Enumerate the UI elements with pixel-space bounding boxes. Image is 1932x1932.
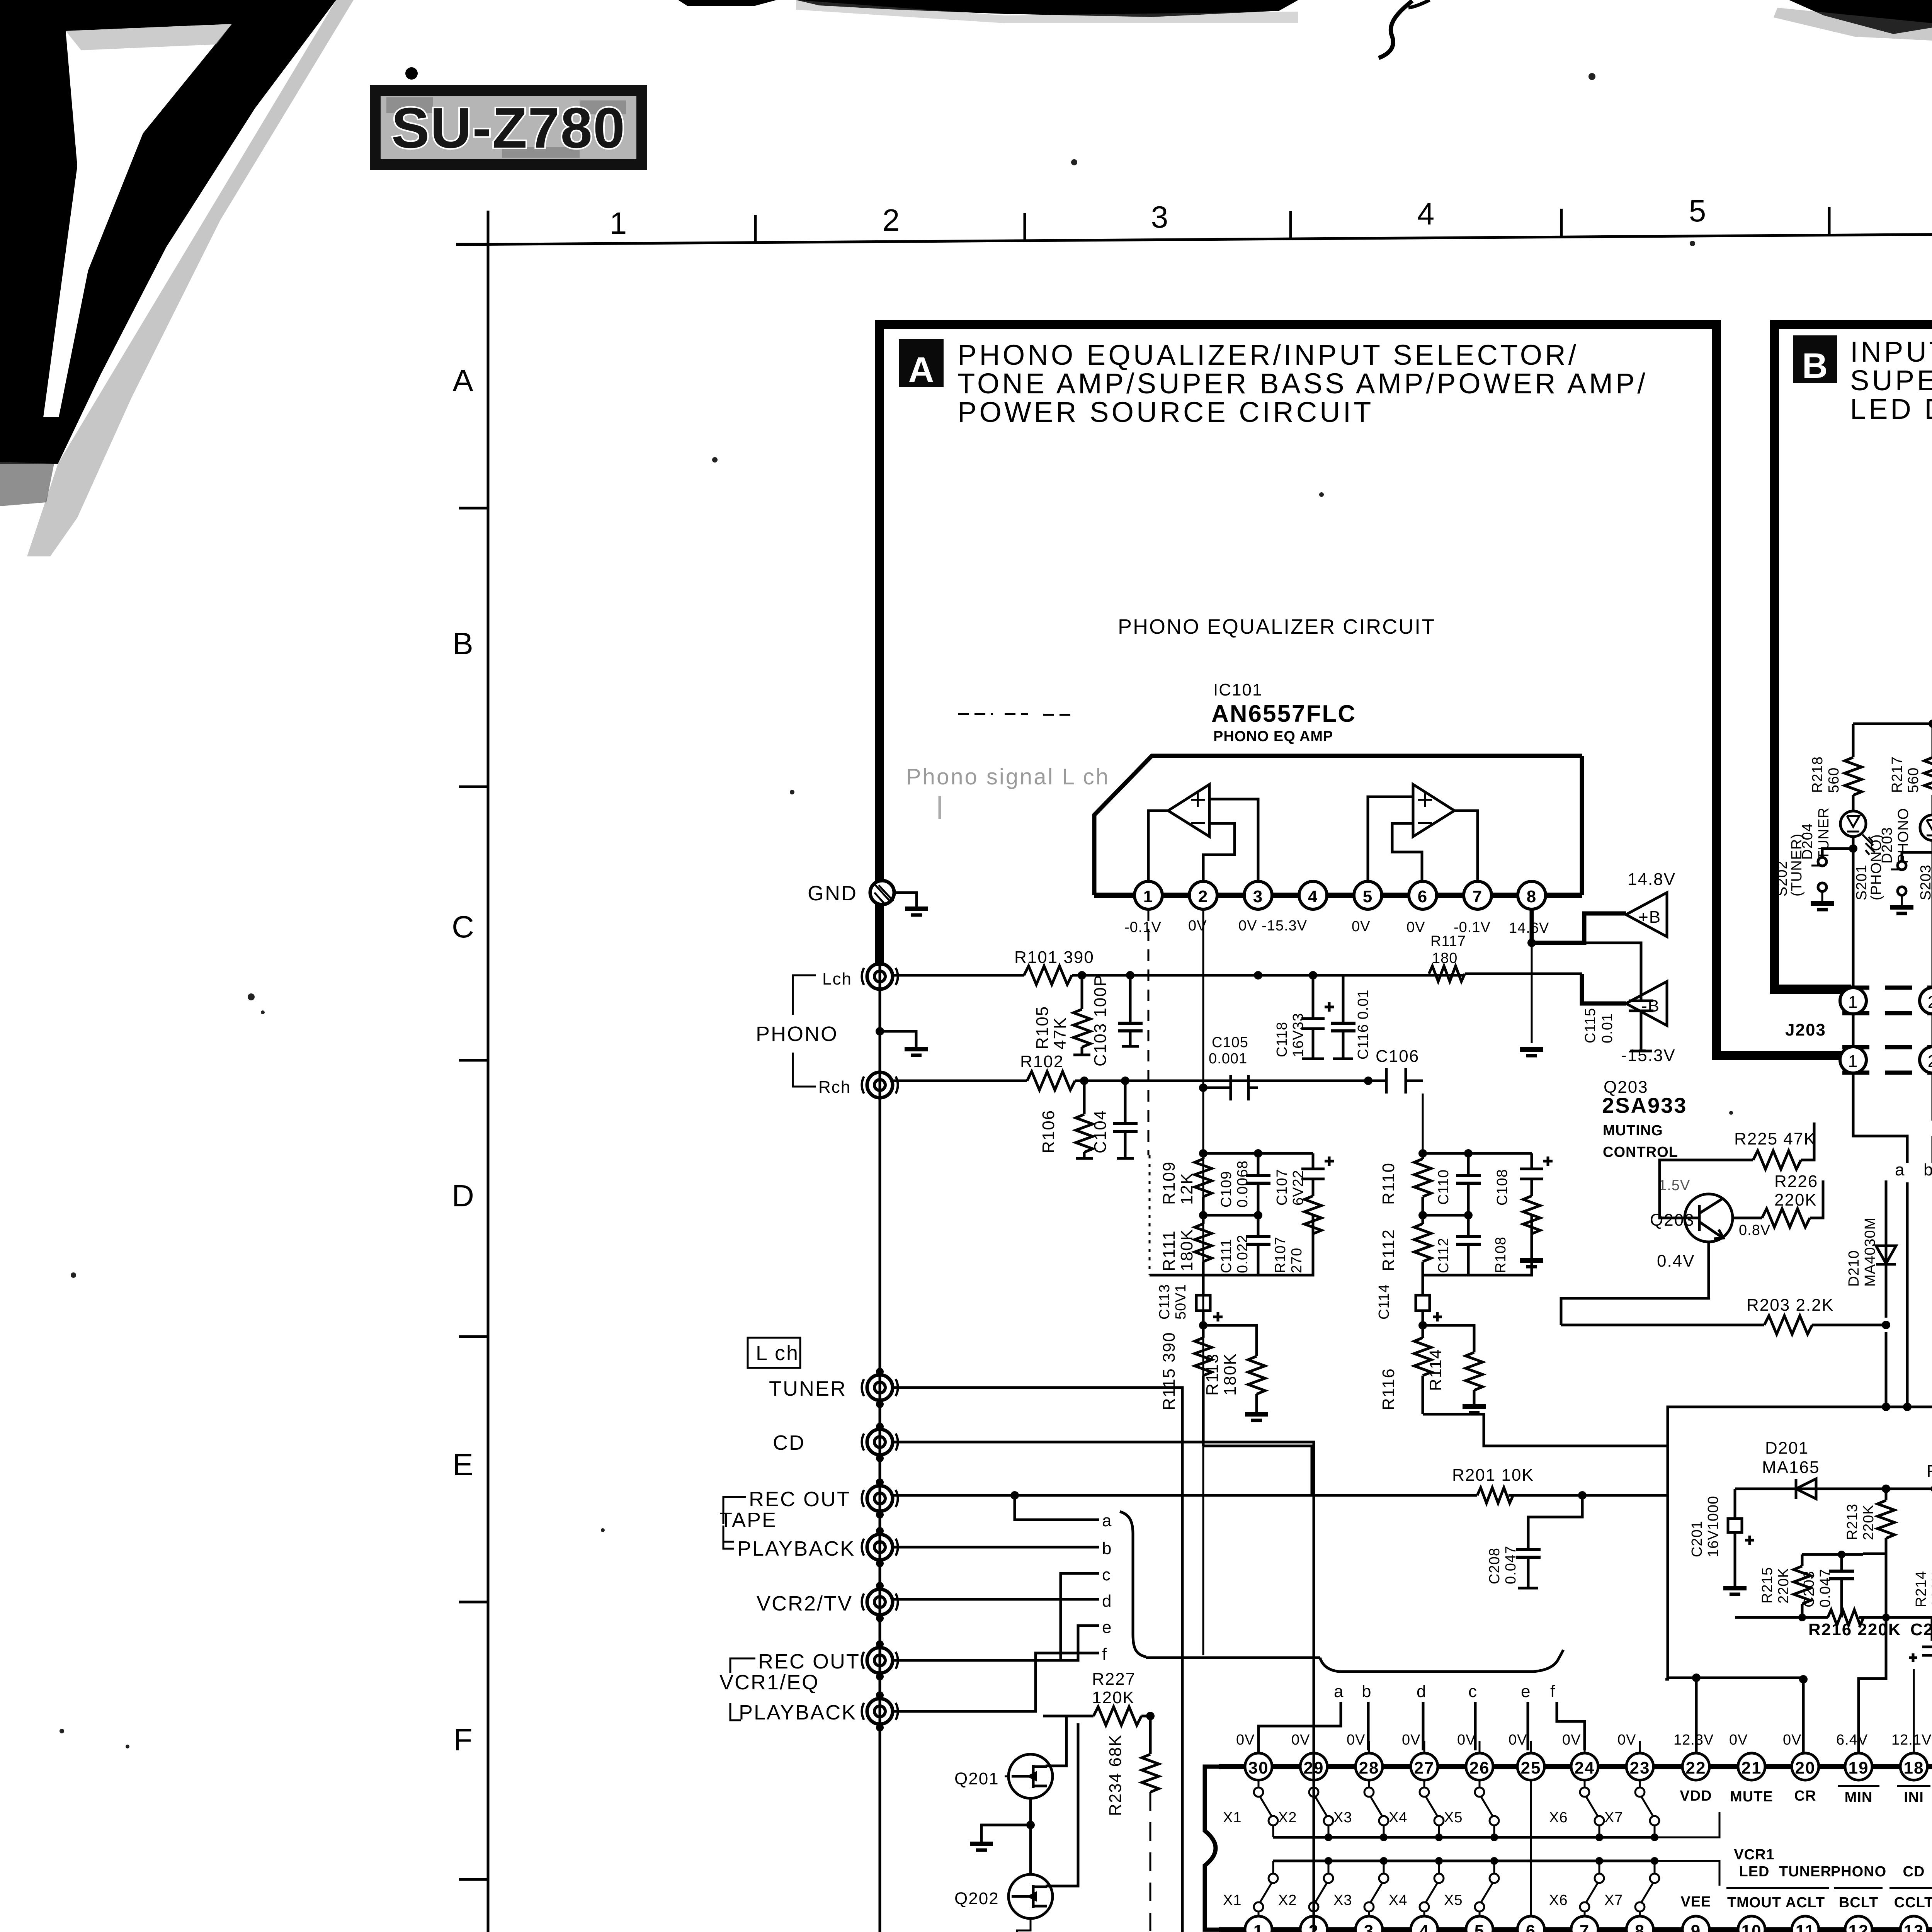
IC201 pin 2 [1300,1916,1327,1932]
resistor R110 [1414,1153,1431,1215]
Rch signal wire [893,1080,1423,1082]
svg-text:PHONO: PHONO [756,1022,838,1046]
svg-text:R117: R117 [1430,933,1466,949]
e tap wire [1061,1626,1099,1660]
IC201 left outline with notch [1205,1767,1219,1930]
capacitor C104 [1113,1081,1138,1158]
svg-text:1: 1 [610,206,627,240]
wire pin22 riser [1695,1678,1698,1753]
svg-text:0.4V: 0.4V [1657,1252,1695,1270]
svg-text:TAPE: TAPE [719,1509,777,1532]
f fan drop [1557,1702,1585,1750]
bus junction b4244 [1651,1857,1658,1865]
e fan drop [1527,1702,1529,1750]
left ruler tick C|D [459,1059,488,1062]
R226 wire [1733,1180,1823,1218]
resistor R201 [1477,1488,1513,1503]
svg-text:C112: C112 [1435,1238,1452,1273]
svg-text:(PHONO): (PHONO) [1868,834,1884,900]
junction D210 block [1882,1403,1890,1411]
junction C113 out [1199,1321,1207,1330]
svg-text:X5: X5 [1444,1810,1463,1826]
block B label square [1793,335,1837,383]
R216 bus junctions [1798,1614,1806,1621]
switch X1 top group [1254,1781,1278,1837]
svg-text:e: e [1102,1618,1112,1637]
svg-text:12: 12 [1849,1922,1869,1932]
network box dashes [1149,1155,1151,1275]
pin12 name PHONO BCLT [1831,1864,1886,1911]
svg-text:f: f [1550,1682,1556,1701]
capacitor C113 electrolytic [1196,1275,1223,1325]
bus junction 3543 [1380,1833,1388,1841]
svg-text:MA4030M: MA4030M [1862,1217,1878,1287]
svg-text:R211: R211 [1927,1462,1932,1481]
svg-text:R108: R108 [1493,1236,1509,1273]
svg-text:-15.3V: -15.3V [1621,1046,1676,1065]
IC201 pin 29 [1300,1753,1327,1780]
svg-text:X3: X3 [1333,1892,1352,1908]
GND stub and ground [894,893,917,907]
svg-text:4: 4 [1417,197,1435,231]
resistor R102 [1027,1071,1075,1090]
svg-text:a: a [1102,1511,1112,1530]
svg-text:R105: R105 [1033,1006,1052,1049]
junction R101 out a [1078,971,1086,980]
svg-text:f: f [1102,1645,1107,1664]
switch X7 bottom group [1635,1861,1659,1916]
top-right corner black [1789,0,1932,34]
svg-text:0V: 0V [1402,1732,1420,1748]
ruler tick 4|5 [1560,209,1563,236]
wire PLAYBACK L to b [893,1546,1099,1549]
pin1 line down [1148,909,1150,1155]
svg-text:21: 21 [1742,1759,1762,1777]
svg-text:IC101: IC101 [1213,680,1262,699]
svg-text:F: F [454,1723,473,1757]
svg-text:27: 27 [1414,1759,1435,1777]
svg-text:X4: X4 [1389,1892,1407,1908]
junction D201-R213 [1882,1485,1890,1493]
capacitor C118 electrolytic [1301,975,1334,1059]
FET Q201 [1009,1754,1053,1798]
svg-text:X7: X7 [1604,1810,1623,1826]
svg-text:0V: 0V [1783,1732,1801,1748]
svg-text:3: 3 [1253,887,1263,906]
IC201 pin 4 [1411,1916,1438,1932]
Q201 source wire [1046,1716,1066,1766]
svg-text:D201: D201 [1765,1439,1809,1458]
resistor R112 [1414,1215,1431,1275]
svg-text:6: 6 [1418,887,1428,906]
svg-text:R226: R226 [1774,1172,1818,1191]
svg-text:28: 28 [1359,1759,1379,1777]
svg-text:0V: 0V [1617,1732,1636,1748]
svg-text:47K: 47K [1051,1017,1070,1049]
svg-text:Rch: Rch [818,1078,851,1097]
IC201 pin 3 [1355,1916,1383,1932]
svg-text:R213: R213 [1844,1503,1861,1540]
svg-text:PHONO: PHONO [1895,808,1912,864]
block A label square [899,339,944,387]
pin11 name TUNER ACLT [1779,1864,1832,1911]
svg-text:C116 0.01: C116 0.01 [1355,989,1371,1060]
bus junction 3829 [1490,1833,1498,1841]
IC201 pin 30 [1245,1753,1272,1780]
svg-text:R114: R114 [1426,1349,1445,1391]
a b vertical drops [1907,1182,1932,1489]
pin19 name MIN [1838,1786,1879,1806]
capacitor C208 [1516,1495,1582,1588]
svg-text:0V -15.3V: 0V -15.3V [1238,918,1307,934]
svg-text:8: 8 [1635,1922,1645,1932]
X7 bottom jog [1655,1861,1719,1886]
jack VCR1 REC OUT L [862,1648,898,1673]
svg-text:CCLT: CCLT [1894,1895,1932,1911]
J203 row1 dashed band [1842,986,1932,990]
svg-text:X3: X3 [1333,1810,1352,1826]
svg-text:PLAYBACK: PLAYBACK [739,1701,857,1724]
bus junction b3829 [1490,1857,1498,1865]
IC101 pin 8 [1518,881,1546,909]
junction C114 out [1418,1321,1427,1330]
IC201 pin 21 [1738,1753,1765,1780]
X7 top jog [1655,1812,1719,1837]
transistor Q203 [1685,1194,1733,1242]
switch X1 bottom group [1254,1861,1278,1916]
capacitor C205 [1886,1617,1932,1662]
capacitor C103 [1118,975,1143,1046]
svg-text:1: 1 [1253,1922,1264,1932]
svg-text:1.5V: 1.5V [1658,1177,1690,1194]
svg-text:C107: C107 [1274,1169,1290,1206]
svg-text:3: 3 [1364,1922,1374,1932]
wire REC OUT L with R201 [893,1494,1668,1497]
svg-text:J203: J203 [1785,1020,1826,1039]
svg-text:X2: X2 [1278,1810,1297,1826]
svg-text:0V: 0V [1457,1732,1476,1748]
IC101 pin 5 [1354,881,1382,909]
svg-text:E: E [452,1447,473,1482]
block A frame right jog horizontal [1712,1051,1842,1060]
switch S202 [1811,849,1853,910]
IC201 pin 8 [1626,1916,1653,1932]
svg-text:R214: R214 [1913,1571,1929,1607]
phono input bus [879,905,881,1932]
svg-text:R102: R102 [1020,1052,1064,1071]
svg-text:ACLT: ACLT [1786,1895,1825,1911]
junction pin4 node [1309,971,1317,980]
Q202 drain wire [1046,1723,1078,1886]
resistor R203 [1764,1316,1812,1334]
svg-text:MUTE: MUTE [1730,1789,1773,1805]
svg-text:5: 5 [1363,887,1373,906]
svg-text:16V1000: 16V1000 [1705,1496,1721,1557]
svg-text:X2: X2 [1278,1892,1297,1908]
op-amp U1a output wire [1148,811,1168,881]
svg-text:Q202: Q202 [954,1889,999,1908]
svg-text:C115: C115 [1582,1008,1599,1043]
svg-text:A: A [452,363,473,398]
IC201 pin 25 [1517,1753,1544,1780]
svg-text:LED DR: LED DR [1850,393,1932,425]
R114 tap wire [1423,1325,1474,1352]
svg-text:Phono signal L ch: Phono signal L ch [906,764,1110,789]
R113 tap wire [1203,1325,1257,1356]
jack TAPE PLAYBACK L [862,1534,898,1560]
resistor R105 [1073,975,1090,1055]
svg-text:CONTROL: CONTROL [1603,1144,1678,1160]
svg-text:0V: 0V [1291,1732,1310,1748]
top switch common bus [1273,1836,1655,1839]
junction net L2 [1254,1149,1262,1158]
b fan drop [1367,1702,1370,1750]
jack PHONO Rch [862,1072,898,1098]
mid ground stub [880,1031,916,1048]
svg-text:R225 47K: R225 47K [1734,1129,1816,1148]
-B feed wire [1582,974,1626,1003]
a fan drop [1259,1702,1341,1753]
svg-text:270: 270 [1289,1248,1305,1273]
svg-text:R109: R109 [1160,1161,1179,1205]
IC201 pin 6 [1517,1916,1544,1932]
svg-text:5: 5 [1475,1922,1485,1932]
IC101 pin 7 [1464,881,1492,909]
junction R215 bus [1838,1551,1845,1558]
svg-text:0.01: 0.01 [1599,1013,1616,1043]
pin13 name CD CCLT [1889,1864,1932,1911]
pin18 name INI [1897,1786,1930,1806]
IC101 pin 4 [1299,881,1327,909]
junction pin3 node [1254,971,1262,980]
resistor R109 [1195,1153,1212,1215]
junction R201 out [1578,1491,1587,1500]
resistor R227 [1094,1707,1141,1725]
resistor R117 [1429,966,1465,981]
svg-text:TUNER: TUNER [1816,807,1832,860]
a-f bus to selector [1146,1656,1320,1659]
svg-text:B: B [452,626,473,661]
bus junction 3686 [1435,1833,1443,1841]
svg-text:20: 20 [1795,1759,1816,1777]
svg-text:23: 23 [1630,1759,1650,1777]
scan speck dot [405,67,418,80]
svg-text:R106: R106 [1039,1110,1058,1153]
IC201 pin 1 [1245,1916,1272,1932]
J203 row1 pin 1 [1840,988,1866,1014]
svg-text:R201 10K: R201 10K [1452,1466,1534,1485]
svg-text:120K: 120K [1092,1688,1135,1707]
op-amp U1a +input wire [1209,799,1258,882]
Lch signal wire [893,974,1464,977]
jack CD L [862,1429,898,1455]
svg-text:R111: R111 [1160,1230,1179,1271]
TAPE bracket L [723,1497,746,1549]
svg-text:R116: R116 [1379,1368,1398,1410]
IC201 pin 12 [1845,1916,1872,1932]
svg-text:VEE: VEE [1680,1894,1711,1910]
mid ground junction [876,1027,884,1036]
IC201 pin 11 [1792,1916,1819,1932]
svg-text:VCR2/TV: VCR2/TV [757,1592,853,1615]
bus junction 4244 [1651,1833,1658,1841]
junction R203-D210 [1882,1321,1890,1329]
resistor R108 [1520,1187,1543,1267]
LED D204 [1840,811,1875,855]
switch X4 bottom group [1420,1861,1444,1916]
R113 ground [1245,1414,1268,1420]
wire J203 row2 to a/b [1853,1073,1932,1163]
wire VCR2/TV L to d [893,1599,1099,1602]
svg-text:b: b [1923,1160,1932,1179]
svg-text:0.047: 0.047 [1503,1546,1519,1584]
switch X4 top group [1420,1781,1444,1837]
pin2 long line [1202,909,1204,1655]
resistor R213 [1863,1489,1895,1554]
switch X2 top group [1309,1781,1333,1837]
svg-text:10: 10 [1742,1922,1762,1932]
svg-text:X6: X6 [1549,1810,1568,1826]
svg-text:4: 4 [1308,887,1318,906]
svg-text:+B: +B [1638,908,1661,927]
capacitor C105 [1203,1075,1258,1100]
IC201 pin 22 [1682,1753,1709,1780]
svg-text:VCR1: VCR1 [1734,1847,1774,1863]
svg-text:C205 16: C205 16 [1910,1620,1932,1639]
svg-text:R112: R112 [1379,1229,1398,1271]
svg-text:R216 220K: R216 220K [1808,1620,1901,1639]
capacitor C114 electrolytic [1416,1275,1442,1325]
junction bottom R215 [1798,1614,1806,1621]
IC201 pin 13 [1900,1916,1927,1932]
capacitor C107 electrolytic [1301,1153,1334,1187]
block B frame left border [1770,320,1779,994]
svg-text:0V: 0V [1347,1732,1365,1748]
svg-text:0V: 0V [1509,1732,1527,1748]
capacitor C203 [1829,1554,1854,1617]
svg-text:D210: D210 [1846,1250,1862,1287]
svg-text:L ch: L ch [756,1342,799,1365]
scan blob white wedge [43,24,232,417]
svg-text:6.4V: 6.4V [1836,1732,1868,1748]
switch X7 top group [1635,1781,1659,1837]
svg-text:220K: 220K [1776,1568,1792,1604]
svg-text:8: 8 [1527,887,1537,906]
svg-text:25: 25 [1521,1759,1541,1777]
resistor R216 [1828,1610,1864,1625]
svg-text:22: 22 [1686,1759,1706,1777]
-B supply triangle [1626,981,1667,1026]
svg-text:220K: 220K [1861,1504,1877,1540]
mute ground junction [1026,1821,1035,1829]
capacitor C116 [1331,975,1355,1059]
IC201 pin 5 [1466,1916,1493,1932]
svg-text:12.1V: 12.1V [1891,1732,1932,1748]
switch X3 bottom group [1364,1861,1388,1916]
c fan drop [1474,1702,1477,1750]
op-amp U1a [1168,784,1209,837]
block A frame top border [875,320,1721,329]
svg-text:(TUNER): (TUNER) [1789,833,1805,896]
svg-text:R203 2.2K: R203 2.2K [1747,1296,1834,1315]
svg-text:26: 26 [1469,1759,1490,1777]
capacitor C111 [1246,1215,1270,1275]
svg-text:C103 100P: C103 100P [1091,975,1110,1066]
svg-text:Q201: Q201 [954,1769,999,1788]
svg-text:X6: X6 [1549,1892,1568,1908]
junction a-f tap [1010,1491,1019,1500]
svg-text:2: 2 [883,203,900,237]
R216 wire [1735,1554,1886,1617]
wire L TUNER drop [1182,1753,1314,1932]
bus junction 3400 [1325,1833,1332,1841]
svg-text:TONE AMP/SUPER BASS AMP/POWER: TONE AMP/SUPER BASS AMP/POWER AMP/ [957,367,1648,400]
EQ network R bottom bus [1423,1215,1532,1275]
wire CD L [893,1442,1314,1753]
EQ network L top bus [1203,1152,1313,1155]
pin6 line down [1422,1094,1424,1153]
SU-Z780 model label [370,85,647,170]
R117 out wire [1465,973,1582,975]
svg-text:a: a [1895,1160,1905,1179]
svg-text:220K: 220K [1774,1190,1817,1209]
bus junction b4101 [1595,1857,1603,1865]
svg-text:S202: S202 [1774,861,1790,896]
svg-text:C118: C118 [1274,1022,1290,1057]
svg-text:C105: C105 [1212,1034,1248,1051]
junction a drop block [1903,1403,1912,1411]
svg-text:9: 9 [1691,1922,1701,1932]
switch X5 bottom group [1475,1861,1499,1916]
+B supply triangle [1626,893,1667,937]
jack PHONO Lch [862,964,898,989]
junction net R1 [1418,1149,1427,1158]
op-amp U1b [1413,784,1454,837]
svg-text:180K: 180K [1221,1353,1240,1396]
svg-text:19: 19 [1849,1759,1869,1777]
resistor R114 [1466,1352,1483,1406]
svg-text:c: c [1102,1565,1111,1584]
capacitor C201 electrolytic [1723,1489,1754,1594]
R115 out step wire [1203,1446,1312,1495]
svg-text:6: 6 [1526,1922,1536,1932]
left ruler line [487,211,490,1932]
a tap wire [1015,1495,1099,1520]
D204 cathode junction [1849,844,1857,853]
jack VCR2/TV L [862,1589,898,1615]
ruler tick 1|2 [754,215,757,243]
resistor R211 [1886,1481,1932,1497]
svg-text:C: C [452,910,474,944]
left ruler tick F|G [459,1878,488,1881]
diode D210 [1876,1180,1896,1407]
svg-text:R234 68K: R234 68K [1106,1734,1125,1816]
svg-text:R101 390: R101 390 [1014,948,1094,967]
svg-text:R227: R227 [1092,1670,1136,1689]
a-f fan labels above selector [1334,1682,1556,1701]
R225 wire [1660,1122,1814,1218]
svg-text:X1: X1 [1223,1892,1242,1908]
wire block to pin20 [1665,1678,1803,1753]
B-block top bus [1853,723,1932,725]
ruler tick 5|6 [1828,207,1831,235]
svg-text:A: A [908,350,934,389]
svg-text:560: 560 [1905,767,1922,793]
EQ network R top bus [1423,1152,1532,1155]
mute ground [981,1825,1031,1842]
switch X3 top group [1364,1781,1388,1837]
IC101 pin 3 [1244,881,1272,909]
